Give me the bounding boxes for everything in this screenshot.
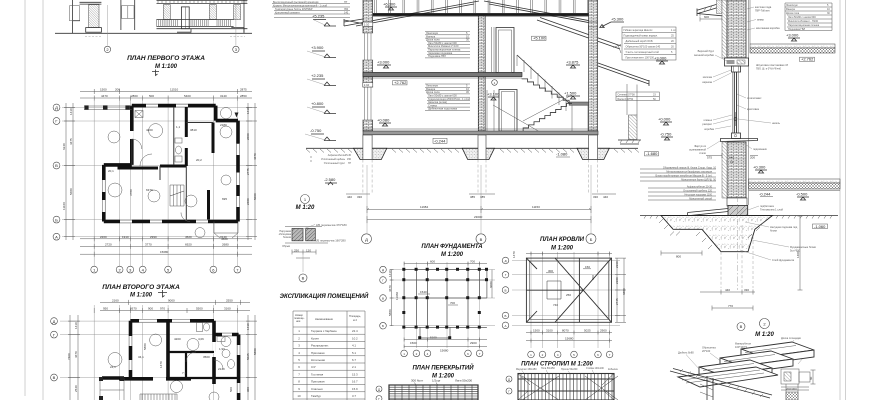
svg-text:600: 600 [704, 15, 709, 19]
svg-text:11510: 11510 [170, 88, 178, 92]
svg-text:1410: 1410 [74, 322, 78, 329]
svg-text:16.7: 16.7 [352, 380, 358, 384]
svg-text:1:10: 1:10 [364, 23, 370, 27]
ground hatch ticks [306, 149, 639, 153]
bottom dimension line 2 [367, 216, 591, 223]
center wall (brick) [478, 16, 485, 131]
svg-text:34,1: 34,1 [138, 355, 144, 359]
svg-text:оцинкованной: оцинкованной [689, 148, 707, 152]
svg-text:5100: 5100 [430, 336, 437, 340]
svg-text:300 болт: 300 болт [411, 379, 424, 383]
svg-text:2720: 2720 [105, 242, 112, 246]
foundation pier right [577, 148, 609, 159]
blind area [688, 209, 728, 216]
pit outer hatch ticks [659, 219, 766, 249]
svg-text:Минплита Изовент - П100: Минплита Изовент - П100 [788, 20, 819, 23]
svg-text:+1.500: +1.500 [564, 91, 577, 96]
svg-text:-0.750: -0.750 [660, 132, 672, 137]
svg-text:М 1:200: М 1:200 [551, 246, 574, 252]
svg-text:22.4: 22.4 [352, 329, 358, 333]
svg-text:косячка: косячка [703, 76, 713, 79]
svg-text:Д: Д [378, 388, 380, 392]
svg-text:2180: 2180 [615, 277, 619, 284]
svg-text:ГВР-ТоКлин: ГВР-ТоКлин [755, 9, 770, 13]
svg-text:Подшивка ГВЛ: Подшивка ГВЛ [428, 54, 446, 58]
right wall (brick) [589, 0, 598, 131]
svg-text:2550: 2550 [226, 298, 233, 302]
svg-text:140: 140 [344, 12, 349, 15]
svg-text:2900: 2900 [470, 341, 477, 345]
svg-text:Верхний брус: Верхний брус [698, 49, 715, 53]
svg-text:Подшивка ГВЛ: Подшивка ГВЛ [788, 28, 806, 31]
porch column 3 [234, 5, 241, 20]
porch roof slope [598, 63, 649, 86]
svg-text:Обрыв: Обрыв [282, 245, 291, 248]
left dims [390, 270, 394, 326]
svg-text:Балки 150*50: Балки 150*50 [618, 98, 634, 101]
node marks [737, 323, 745, 331]
svg-text:3500: 3500 [203, 355, 210, 359]
svg-text:4520: 4520 [185, 235, 192, 239]
svg-text:+3.000: +3.000 [377, 60, 390, 65]
stairs [170, 185, 184, 206]
svg-text:3160: 3160 [224, 307, 231, 311]
svg-text:23000: 23000 [474, 215, 483, 219]
svg-text:В: В [504, 289, 506, 293]
svg-text:2860: 2860 [131, 94, 138, 98]
pier squares [402, 268, 488, 339]
bathroom fixtures [175, 138, 182, 162]
section mark [158, 290, 167, 297]
svg-text:В: В [302, 276, 305, 281]
bottom dims [526, 331, 612, 343]
svg-text:15.9: 15.9 [352, 387, 358, 391]
svg-text:Д: Д [53, 319, 56, 324]
grid circles bottom [401, 350, 408, 357]
svg-text:5400: 5400 [184, 94, 191, 98]
right dims [615, 258, 626, 322]
svg-text:Дюбельный короб ОСБ: Дюбельный короб ОСБ [626, 40, 653, 43]
svg-text:5025: 5025 [584, 329, 591, 333]
facade left column hatched [89, 5, 99, 28]
dims at sill level [706, 153, 758, 158]
svg-text:1470: 1470 [512, 251, 516, 258]
svg-text:1500: 1500 [533, 329, 540, 333]
svg-text:11984: 11984 [420, 205, 428, 209]
svg-text:НТ: НТ [344, 1, 348, 4]
svg-text:М 1:100: М 1:100 [130, 293, 153, 299]
svg-text:Терраса с барбекю: Терраса с барбекю [311, 329, 337, 333]
svg-text:М 1:20: М 1:20 [755, 332, 774, 338]
svg-text:8070: 8070 [562, 329, 569, 333]
below-grade dashes [85, 36, 245, 38]
svg-text:6080: 6080 [489, 281, 493, 288]
leader labels [678, 336, 813, 355]
svg-text:Наименование: Наименование [315, 317, 334, 321]
svg-text:330: 330 [744, 288, 749, 292]
left eave fascia [344, 19, 365, 26]
svg-text:1,1: 1,1 [176, 125, 181, 129]
right vertical dim [798, 216, 803, 290]
footing column [727, 198, 747, 206]
axis grid lines [60, 305, 250, 400]
foundation pit [661, 216, 773, 252]
ground line [640, 215, 838, 217]
svg-text:Подкладочный ковер андерл.: Подкладочный ковер андерл. [624, 35, 659, 38]
svg-text:Гибкая черепица Шинглс: Гибкая черепица Шинглс [624, 29, 654, 32]
top dimension rows [100, 300, 250, 305]
window lintel [725, 58, 749, 66]
svg-text:Б: Б [382, 324, 384, 328]
svg-text:стеклопакет: стеклопакет [747, 97, 762, 100]
svg-text:5000: 5000 [253, 193, 257, 200]
top dimension row 2 [80, 96, 252, 101]
svg-text:695: 695 [222, 197, 227, 201]
svg-text:Несущая подошва 1100: Несущая подошва 1100 [685, 194, 713, 197]
svg-text:Тамбур: Тамбур [311, 394, 321, 398]
node detail lintels [285, 227, 328, 244]
insulation strip [722, 0, 727, 58]
svg-text:440: 440 [603, 195, 608, 199]
svg-text:Уплотненный грунт: Уплотненный грунт [324, 162, 346, 165]
top right leader labels [755, 6, 780, 30]
svg-text:Сечение 07*08: Сечение 07*08 [618, 94, 636, 97]
ground line [55, 32, 252, 34]
svg-text:2680: 2680 [246, 198, 250, 205]
svg-text:60: 60 [809, 376, 813, 380]
svg-text:ПЛАН ПЕРВОГО ЭТАЖА: ПЛАН ПЕРВОГО ЭТАЖА [127, 55, 205, 62]
porch spec box [616, 92, 659, 101]
svg-text:3810: 3810 [190, 128, 197, 132]
bottom platform board [678, 367, 778, 387]
elevation -0.244 [433, 138, 447, 143]
svg-text:2680: 2680 [222, 242, 229, 246]
wall blocks upper [727, 0, 746, 58]
grid circles left [502, 257, 509, 264]
facade left wing wall [73, 0, 102, 33]
svg-text:10.2: 10.2 [352, 336, 358, 340]
svg-text:Котельная: Котельная [311, 358, 325, 362]
stairs flight B (2nd floor to landing) [522, 79, 569, 103]
svg-text:3780: 3780 [129, 189, 133, 196]
svg-text:Дюбель 8х80: Дюбель 8х80 [678, 351, 694, 355]
svg-text:1500: 1500 [100, 88, 107, 92]
svg-text:950: 950 [103, 307, 108, 311]
svg-text:440: 440 [725, 288, 730, 292]
svg-text:200: 200 [115, 88, 120, 92]
window glazing [734, 72, 736, 133]
node detail dims [292, 250, 316, 259]
interior walls [118, 107, 214, 220]
porch post [627, 84, 637, 115]
svg-text:Обрешетка 50*100 шагом 140: Обрешетка 50*100 шагом 140 [626, 46, 661, 49]
lintel box on right wall [589, 26, 598, 30]
svg-text:330: 330 [593, 195, 598, 199]
svg-text:200: 200 [750, 156, 755, 160]
svg-text:15680: 15680 [440, 349, 449, 353]
ground line [306, 147, 638, 149]
facade right edge [243, 0, 245, 33]
doors 1st floor [499, 90, 517, 132]
svg-text:Кобылка: Кобылка [608, 368, 618, 371]
svg-text:2850: 2850 [240, 94, 247, 98]
svg-text:Б: Б [505, 314, 507, 318]
svg-text:клинья: клинья [704, 119, 713, 122]
bottom dims [404, 338, 487, 349]
left dimension columns [64, 103, 75, 240]
svg-text:500: 500 [591, 275, 595, 280]
svg-text:Металлизируется базофлюкс изол: Металлизируется базофлюкс изоляция [666, 171, 712, 174]
svg-text:700: 700 [470, 260, 475, 264]
svg-text:2670: 2670 [130, 307, 137, 311]
svg-text:+3.900: +3.900 [311, 45, 324, 50]
svg-text:Прогон 50х200: Прогон 50х200 [561, 368, 578, 371]
svg-text:5шт*600: 5шт*600 [790, 249, 801, 253]
svg-text:6880: 6880 [622, 288, 626, 295]
svg-text:+0.300: +0.300 [753, 165, 766, 170]
svg-text:Д: Д [504, 259, 506, 263]
grid circles left: Д Г В Б А [53, 104, 60, 111]
svg-text:+0.080: +0.080 [377, 118, 390, 123]
svg-text:Нога 50х150: Нога 50х150 [541, 367, 555, 370]
svg-text:800: 800 [676, 255, 681, 259]
svg-text:2000: 2000 [246, 133, 250, 140]
grid mark 2 [104, 46, 110, 52]
pit dims [700, 290, 755, 311]
svg-text:блоки: блоки [770, 229, 777, 233]
porch fascia band [157, 1, 248, 4]
svg-text:-0.750: -0.750 [310, 128, 322, 133]
svg-text:нагель: нагель [772, 122, 781, 125]
svg-text:24,1: 24,1 [110, 365, 116, 369]
svg-text:3.7: 3.7 [352, 394, 356, 398]
svg-text:м 2: м 2 [353, 318, 358, 322]
svg-text:ГВЛ, Ш, и 0*б/л*б/чн0: ГВЛ, Ш, и 0*б/л*б/чн0 [756, 68, 782, 71]
svg-text:Учесть теплозащитный слой: Учесть теплозащитный слой [626, 51, 660, 54]
stringer with nails [670, 369, 772, 399]
window leader notes left [689, 49, 715, 155]
left dims [68, 315, 80, 400]
svg-text:500: 500 [229, 387, 233, 392]
pier dashed projections [363, 160, 598, 194]
window leader notes right [747, 97, 781, 151]
grid circle А [362, 234, 372, 244]
top dim [526, 252, 612, 256]
interior walls thin [168, 352, 239, 378]
right dims [491, 270, 493, 298]
svg-text:600: 600 [430, 260, 435, 264]
top-left list [622, 27, 676, 60]
ground slab [363, 128, 598, 130]
bottom dimension rows [80, 236, 252, 241]
svg-text:М 1:200: М 1:200 [441, 252, 464, 258]
slab crosshatch band [750, 44, 835, 48]
svg-text:К/Б перемычка 160*280: К/Б перемычка 160*280 [315, 239, 346, 243]
svg-text:15.3: 15.3 [352, 372, 358, 376]
svg-text:-0.500: -0.500 [796, 192, 808, 197]
svg-text:Монолитные балки ШЛУШ: Монолитные балки ШЛУШ [681, 179, 712, 182]
bottom dimension line 1 [367, 206, 591, 213]
svg-text:Обшивочный гипрок Ф. блока Сто: Обшивочный гипрок Ф. блока Стоцр. борд [663, 167, 713, 170]
svg-text:1:10: 1:10 [364, 83, 370, 87]
wall level ticks [363, 22, 598, 27]
left annotation group 1 [640, 169, 716, 181]
bathroom fixtures top [197, 323, 235, 369]
right dims [246, 315, 257, 400]
svg-text:блоков: блоков [283, 236, 292, 239]
svg-text:300: 300 [548, 269, 553, 273]
svg-text:2140: 2140 [218, 367, 225, 371]
node callout 1 [492, 80, 498, 86]
svg-text:монтажная коробка: монтажная коробка [756, 26, 780, 30]
right section detail [781, 369, 810, 400]
kitchen fixtures [135, 111, 143, 118]
facade axis lines [108, 5, 236, 46]
window hardware [734, 118, 737, 121]
svg-text:Мауэрлат 150х150: Мауэрлат 150х150 [516, 368, 537, 371]
svg-text:ПЛАН ВТОРОГО ЭТАЖА: ПЛАН ВТОРОГО ЭТАЖА [102, 284, 180, 291]
svg-text:+3.000: +3.000 [654, 56, 667, 61]
svg-text:Кухня: Кухня [311, 336, 319, 340]
svg-text:15680: 15680 [160, 250, 169, 254]
svg-text:440: 440 [347, 195, 352, 199]
svg-text:В: В [55, 163, 58, 168]
svg-text:+6.300: +6.300 [383, 2, 396, 7]
sill [721, 139, 758, 142]
svg-text:Фундаментные блоки: Фундаментные блоки [790, 245, 816, 249]
svg-text:Асфальтобетон 20-30: Асфальтобетон 20-30 [687, 186, 713, 189]
svg-text:ЭКСПЛИКАЦИЯ ПОМЕЩЕНИЙ: ЭКСПЛИКАЦИЯ ПОМЕЩЕНИЙ [280, 292, 369, 300]
node detail 1 title [301, 195, 310, 204]
svg-text:250: 250 [566, 293, 571, 297]
svg-text:20,1: 20,1 [108, 169, 114, 173]
svg-text:1910: 1910 [122, 235, 129, 239]
2nd floor slab [363, 72, 522, 76]
sheet frame right [839, 0, 841, 400]
shpuntovka note [756, 64, 789, 71]
facade chimney band [121, 0, 135, 30]
foundation block [728, 206, 748, 226]
roof slope lines [344, 1, 590, 26]
svg-text:Д: Д [55, 105, 58, 110]
axis grid lines [62, 100, 252, 266]
facade left window [70, 6, 80, 21]
svg-text:2260: 2260 [100, 235, 107, 239]
eave top [697, 0, 743, 16]
svg-text:740: 740 [553, 303, 558, 307]
svg-text:стали: стали [699, 152, 706, 155]
svg-text:Приточная вент 100*100: Приточная вент 100*100 [626, 57, 655, 60]
pit axis dash line [737, 196, 739, 290]
svg-text:200/300: 200/300 [786, 387, 797, 391]
window thin lines [102, 104, 239, 223]
svg-text:-2.580: -2.580 [324, 177, 336, 182]
rafter body [518, 374, 618, 400]
svg-text:ПЛАН КРОВЛИ: ПЛАН КРОВЛИ [540, 237, 585, 243]
svg-text:2540: 2540 [74, 385, 78, 392]
svg-text:20*100: 20*100 [702, 349, 711, 353]
left pit dim [661, 251, 702, 256]
svg-text:575: 575 [707, 156, 712, 160]
lower roof slope over stair wing [537, 18, 621, 50]
extension lines [367, 165, 591, 233]
svg-text:ния: ния [296, 320, 301, 323]
svg-text:900: 900 [246, 387, 250, 392]
left wall (brick) [363, 0, 373, 131]
svg-text:330: 330 [357, 195, 362, 199]
porch column 2 [209, 5, 216, 20]
svg-text:Распределит.: Распределит. [311, 344, 329, 348]
svg-text:+5.235: +5.235 [312, 14, 325, 19]
svg-text:2875: 2875 [240, 88, 247, 92]
svg-text:700: 700 [450, 301, 455, 305]
svg-text:4670: 4670 [253, 153, 257, 160]
wall-top insulation wrap [717, 0, 723, 14]
left annotation group 2 [648, 188, 716, 200]
foundation pier center [462, 148, 494, 159]
svg-text:1/2орг: 1/2орг [432, 379, 441, 383]
svg-text:3140: 3140 [220, 94, 227, 98]
window gaps [131, 321, 239, 393]
svg-text:Д: Д [382, 268, 384, 272]
north arrow mark [235, 113, 239, 118]
svg-text:150: 150 [585, 265, 590, 269]
svg-text:2775: 2775 [246, 168, 250, 175]
svg-text:150: 150 [347, 158, 352, 161]
svg-text:А: А [504, 324, 506, 328]
svg-text:11150: 11150 [532, 205, 540, 209]
step treads [699, 342, 814, 382]
grid circles bottom [528, 351, 535, 358]
grid circles left [380, 266, 387, 273]
svg-text:коробка: коробка [704, 127, 714, 131]
svg-text:Стойка 100х100: Стойка 100х100 [586, 367, 604, 370]
svg-text:подбетонка: подбетонка [760, 204, 774, 208]
svg-text:подоконник: подоконник [753, 148, 768, 151]
axis lines [512, 252, 620, 348]
svg-text:Слой фундамента: Слой фундамента [772, 258, 795, 262]
svg-text:640: 640 [729, 156, 734, 160]
svg-text:970: 970 [160, 307, 165, 311]
svg-text:7,3: 7,3 [182, 371, 187, 375]
svg-text:250: 250 [294, 249, 299, 253]
svg-text:500: 500 [149, 94, 154, 98]
svg-text:Д: Д [365, 237, 368, 242]
svg-text:Обрешетка: Обрешетка [702, 346, 716, 350]
asphalt annotation [321, 154, 352, 165]
svg-text:4470: 4470 [101, 94, 108, 98]
svg-text:карниза: карниза [702, 81, 712, 84]
roof spec table top-left [272, 4, 350, 18]
window bottom frame [732, 133, 741, 139]
svg-text:-1.080: -1.080 [556, 152, 568, 157]
svg-text:ПЛАН СТРОПИЛ М 1:200: ПЛАН СТРОПИЛ М 1:200 [521, 362, 593, 368]
svg-text:Монолитный серый: Монолитный серый [689, 198, 712, 201]
svg-text:6370: 6370 [146, 188, 153, 192]
svg-text:1,90: 1,90 [219, 347, 225, 351]
joist body [389, 385, 478, 400]
svg-text:5500: 5500 [196, 307, 203, 311]
window head frame [732, 66, 741, 72]
door swing arcs [132, 139, 190, 222]
terrace bottom right [214, 222, 238, 239]
svg-text:25-30: 25-30 [345, 154, 352, 157]
svg-text:3770: 3770 [145, 242, 152, 246]
svg-text:+3.875: +3.875 [566, 60, 579, 65]
room circles [108, 131, 120, 143]
floor spec table (1st floor) [425, 84, 470, 110]
svg-text:11160: 11160 [62, 202, 66, 210]
